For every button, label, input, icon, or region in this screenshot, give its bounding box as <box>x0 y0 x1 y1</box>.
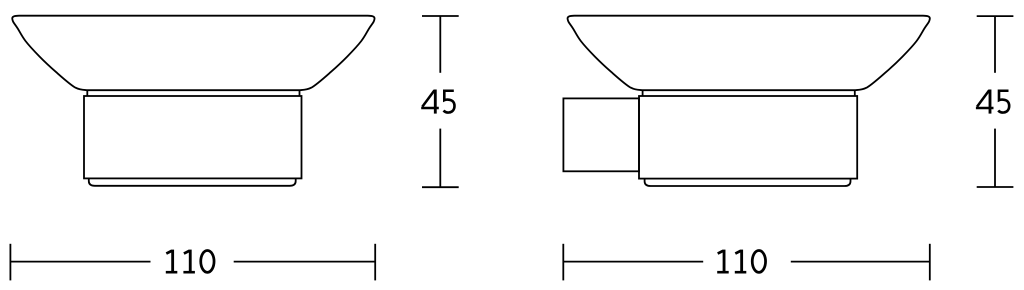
dimension 45 (left view): vertical line lower segment <box>439 129 441 188</box>
left view: bowl lip right edge <box>299 90 301 96</box>
label 45 (left view) <box>421 90 454 114</box>
right view: wall-mount bracket <box>563 98 639 171</box>
dimension 45 (right view): vertical line upper segment <box>994 16 996 73</box>
dimension 110 (right view): horizontal line left segment <box>563 261 703 263</box>
dimension 110 (left view): left tick <box>9 244 11 281</box>
dimension 45 (left view): bottom tick <box>422 186 459 188</box>
label 110 (right view) <box>717 250 765 273</box>
right view: base body <box>639 96 857 179</box>
dimension 110 (right view): right tick <box>929 244 931 281</box>
dimension 110 (right view): left tick <box>562 244 564 281</box>
right view: base foot <box>645 179 851 186</box>
dimension 110 (left view): horizontal line left segment <box>10 261 150 263</box>
label 110 (left view) <box>166 250 214 273</box>
left view: bowl lip left edge <box>86 90 88 96</box>
right view: soap dish bowl <box>568 16 930 91</box>
dimension 45 (right view): top tick <box>977 15 1014 17</box>
dimension 45 (left view): top tick <box>422 15 459 17</box>
dimension 110 (left view): horizontal line right segment <box>234 261 376 263</box>
dimension 45 (right view): bottom tick <box>977 186 1014 188</box>
dimension 110 (left view): right tick <box>374 244 376 281</box>
right view: bowl lip left edge <box>642 90 644 96</box>
label 45 (right view) <box>976 90 1009 114</box>
dimension 110 (right view): horizontal line right segment <box>791 261 930 263</box>
dimension 45 (right view): vertical line lower segment <box>994 129 996 187</box>
dimension 45 (left view): vertical line upper segment <box>439 16 441 73</box>
left view: base body <box>84 96 302 178</box>
left view: base foot <box>89 178 296 185</box>
left view: soap dish bowl <box>12 16 374 91</box>
right view: bowl lip right edge <box>854 90 856 96</box>
